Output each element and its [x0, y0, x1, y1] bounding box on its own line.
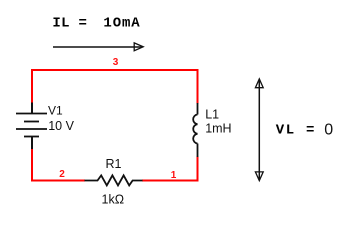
svg-text:0: 0 [324, 121, 333, 138]
svg-text:1: 1 [171, 170, 177, 181]
svg-text:R1: R1 [106, 157, 122, 171]
svg-text:10 V: 10 V [48, 119, 74, 133]
svg-text:L1: L1 [205, 107, 219, 121]
svg-text:1OmA: 1OmA [103, 16, 140, 32]
svg-text:3: 3 [113, 57, 119, 68]
svg-text:VL =: VL = [276, 123, 316, 139]
svg-text:IL =: IL = [52, 16, 87, 32]
svg-text:V1: V1 [48, 104, 63, 118]
svg-text:1kΩ: 1kΩ [102, 192, 125, 206]
svg-text:1mH: 1mH [205, 122, 231, 136]
svg-text:2: 2 [59, 169, 65, 180]
